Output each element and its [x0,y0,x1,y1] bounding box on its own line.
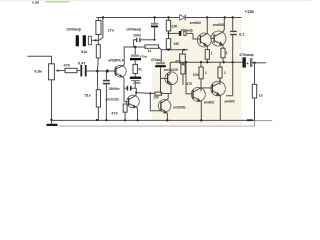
svg-text:150: 150 [173,42,179,46]
wire KT802 collector to KT803 base [201,87,212,89]
ground symbol [51,120,53,124]
svg-text:кт803: кт803 [225,100,235,104]
ground bottom rail [52,119,255,121]
green header line [32,1,39,5]
resistor R 51k upper [97,40,99,44]
resistor R 27k [97,18,99,21]
transistor Q1 [114,65,126,77]
node top rail dots [102,16,234,18]
svg-text:кт808: кт808 [213,23,224,27]
wire pot to ground [51,80,53,120]
resistor R emitter KT604 [205,50,209,60]
resistor R 1k horizontal [154,39,156,41]
transistor Q5 kt803 [211,81,226,96]
svg-text:1к: 1к [148,49,152,53]
svg-text:3000п: 3000п [109,86,121,91]
svg-text:470мк: 470мк [151,58,161,62]
scan tint background [169,19,242,125]
diode D1 [180,15,186,21]
wire Q1 collector net [124,47,145,65]
wire output to lower pair [226,62,233,96]
svg-text:6,8к: 6,8к [35,68,42,73]
capacitor C 470m electrolytic chain [134,47,136,55]
svg-text:кт802: кт802 [204,100,215,104]
resistor R collector Q4 [200,62,202,67]
resistor R 150 interstage [150,92,155,94]
capacitor C 100p lower [130,77,141,79]
svg-text:1: 1 [224,71,226,75]
gray shadow line [59,125,254,127]
node B dot [96,70,99,73]
svg-text:s.dd: s.dd [32,1,39,5]
svg-text:51к: 51к [85,93,91,98]
wire bootstrap [99,18,103,41]
transistor Q3 kt805a [158,100,171,113]
svg-text:1: 1 [226,51,228,55]
svg-text:кт805а: кт805а [173,106,185,110]
svg-text:150: 150 [153,95,159,99]
svg-text:+11в: +11в [245,9,255,14]
transistor Q4 kt802 [191,87,205,101]
wire to Q4 base [186,62,193,94]
wire output node [170,61,242,63]
svg-text:27к: 27к [108,28,114,33]
svg-text:51: 51 [138,68,142,72]
wire mid node [161,49,188,51]
svg-text:кт604: кт604 [190,21,201,25]
pot wiper arrow [57,70,64,72]
svg-text:4700мкф: 4700мкф [239,53,253,57]
transistor Q KT604 [197,33,211,47]
svg-text:+: + [246,61,249,66]
svg-text:мП3ВТ4,А: мП3ВТ4,А [108,59,124,63]
svg-text:470мкф: 470мкф [181,29,193,33]
resistor R 51 small [133,64,137,73]
svg-text:1: 1 [211,51,213,55]
svg-text:51к: 51к [81,49,87,54]
wire rail tail [255,120,273,122]
svg-text:0,47: 0,47 [78,60,86,65]
svg-text:1000мкф: 1000мкф [66,28,81,32]
resistor chain R 150 upper [168,18,170,21]
svg-text:кт3102б: кт3102б [164,68,179,72]
svg-text:100: 100 [193,73,199,77]
resistor R 51k lower [97,71,99,90]
potentiometer R 6.8k [49,64,55,80]
svg-text:100п: 100п [133,81,141,85]
resistor R 470 mid [182,50,184,54]
transistor Q middle kt3102 [127,95,140,108]
svg-text:1000мкф: 1000мкф [126,28,141,32]
resistor R emitter KT808 [221,48,225,58]
svg-text:0,1: 0,1 [239,32,244,36]
capacitor C 1000mkf input pair [76,35,86,46]
resistor R collector Q5 [219,62,221,67]
capacitor C 0.1 [232,18,234,31]
svg-text:150: 150 [172,24,178,28]
svg-text:470м: 470м [140,55,148,59]
capacitor C series interstage [124,87,127,89]
svg-text:470: 470 [186,82,192,86]
resistor R 150 lower [166,39,170,50]
capacitor C 3000p [103,80,110,85]
green rule [0,0,312,2]
wire input [28,56,52,64]
svg-text:470: 470 [111,110,118,115]
resistor R 470 emitter follower [123,104,127,112]
wire cap node [92,39,99,41]
transistor Q KT808 [211,31,226,46]
svg-text:1: 1 [205,71,207,75]
transistor Q2 kt3102b [165,72,178,85]
resistor R mid lower [181,65,185,74]
wire top rail right of diode [186,17,242,19]
wire node B to Q1 base [97,70,116,72]
svg-text:470: 470 [64,63,71,68]
ground junction dash [247,119,253,121]
wire top rail [96,17,179,19]
wire base Q3 [150,93,161,110]
resistor R 1 load [254,63,256,85]
svg-text:кт3102е: кт3102е [106,97,120,101]
svg-text:100п: 100п [133,33,141,37]
svg-text:470: 470 [175,59,181,63]
svg-text:1в: 1в [259,94,263,98]
node dot base Q1 / 3000p [106,70,109,73]
